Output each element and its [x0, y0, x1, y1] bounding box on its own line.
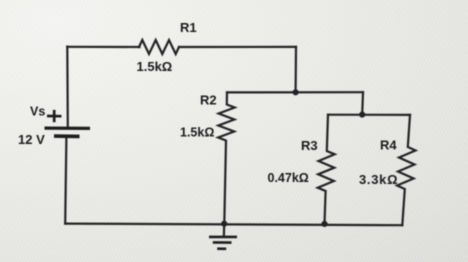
wire: top horizontal left segment (battery to R1) — [67, 46, 139, 48]
svg-text:0.47kΩ: 0.47kΩ — [268, 171, 309, 185]
wire: middle horizontal at node A level (R2 top to x=363) — [227, 91, 363, 93]
svg-text:R1: R1 — [180, 20, 197, 35]
svg-text:1.5kΩ: 1.5kΩ — [137, 59, 173, 74]
junction dot at ground node — [221, 221, 227, 227]
junction node A dot — [293, 89, 299, 95]
resistor R4 (with top stub and bottom wire) — [397, 115, 415, 225]
svg-text:12 V: 12 V — [18, 132, 45, 147]
svg-text:R3: R3 — [301, 138, 318, 153]
resistor R3 (with top stub and bottom wire) — [318, 115, 335, 224]
battery Vs plates — [45, 128, 91, 136]
svg-text:R2: R2 — [200, 93, 217, 108]
junction dot at R3 bottom — [321, 221, 327, 227]
ground stub — [223, 224, 226, 236]
resistor R1 zigzag — [139, 40, 179, 54]
svg-text:R4: R4 — [380, 138, 397, 153]
battery positive plate — [45, 127, 91, 130]
wire: left vertical from top wire down to battery + plate — [66, 47, 69, 128]
resistor R2 (with top stub and bottom wire) — [218, 92, 235, 223]
wire: vertical from middle wire down to node B — [361, 92, 364, 114]
svg-text:3.3kΩ: 3.3kΩ — [359, 172, 398, 187]
plus sign of source polarity — [47, 110, 62, 122]
junction node B dot — [359, 112, 365, 118]
battery negative plate — [54, 134, 80, 138]
ground symbol bars — [209, 237, 237, 249]
wire: bottom horizontal rail — [65, 224, 402, 226]
wire: battery minus plate down left vertical — [65, 136, 66, 223]
svg-text:1.5kΩ: 1.5kΩ — [180, 126, 214, 140]
wire: horizontal at node B level (R3 top to R4 top) — [328, 114, 410, 116]
wire: vertical from top-right corner down to node A — [295, 47, 298, 92]
svg-text:Vs: Vs — [30, 105, 45, 119]
wire: top horizontal right segment (R1 to top-right corner) — [179, 46, 296, 48]
